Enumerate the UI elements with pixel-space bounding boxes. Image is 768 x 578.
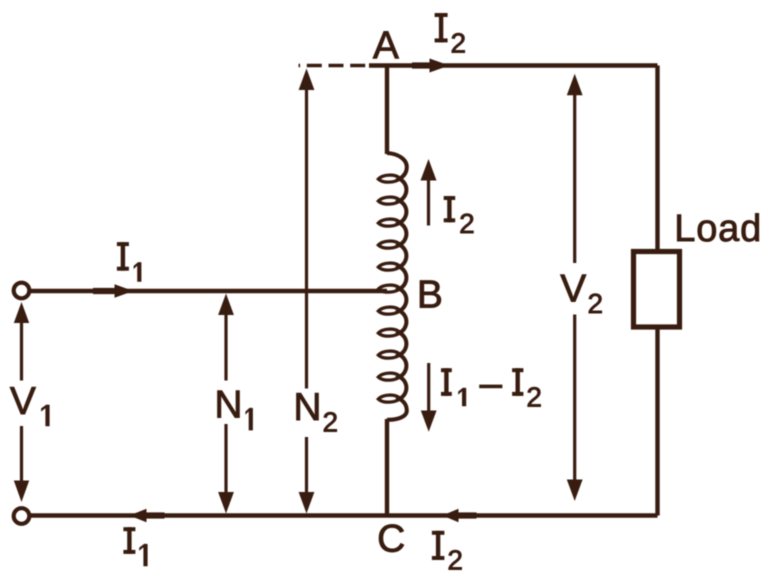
svg-text:V: V xyxy=(560,268,586,311)
V2 double arrow xyxy=(567,74,583,501)
svg-text:Load: Load xyxy=(674,208,762,250)
load resistor rectangle xyxy=(634,252,680,328)
inductor winding coil xyxy=(378,153,407,420)
I1-I2 arrow beside coil (pointing down) xyxy=(421,363,437,432)
svg-text:N: N xyxy=(214,384,242,427)
wire: top secondary wire A to right xyxy=(369,63,658,67)
wire: load bottom to bottom wire xyxy=(655,327,659,516)
wire: bottom return wire xyxy=(22,513,658,517)
svg-text:B: B xyxy=(417,274,443,317)
svg-text:2: 2 xyxy=(526,382,542,413)
wire: dashed extension left of A xyxy=(299,64,370,68)
wire: left input wire to tap B xyxy=(22,289,388,293)
I2 current arrow on bottom wire (pointing left) xyxy=(442,509,458,523)
label I1 bottom xyxy=(123,527,135,554)
wire: right vertical from top wire to load xyxy=(655,66,659,252)
label I2 bottom xyxy=(432,531,445,560)
label I1 top xyxy=(117,242,129,271)
wire: node A down to coil top xyxy=(385,64,389,155)
wire: coil bottom down to node C xyxy=(385,419,389,516)
I2 arrow beside coil (pointing up) xyxy=(421,159,437,226)
svg-text:2: 2 xyxy=(451,27,467,58)
I2 current arrow on top wire xyxy=(430,59,450,73)
svg-text:2: 2 xyxy=(447,545,463,576)
input terminal top xyxy=(14,283,30,299)
svg-text:2: 2 xyxy=(323,407,339,438)
N2 double arrow xyxy=(299,69,315,514)
svg-text:A: A xyxy=(373,25,399,68)
svg-text:C: C xyxy=(377,518,405,561)
label I1 - I2 xyxy=(441,368,452,396)
input terminal bottom xyxy=(14,508,30,524)
svg-text:2: 2 xyxy=(588,288,604,319)
V1 double arrow xyxy=(14,302,29,502)
svg-text:2: 2 xyxy=(459,208,475,239)
I1 current arrow on bottom wire (pointing left) xyxy=(129,509,146,523)
svg-text:V: V xyxy=(10,380,36,423)
svg-text:N: N xyxy=(293,386,321,429)
label I2 coil xyxy=(444,196,456,222)
coil loop turns xyxy=(378,175,400,402)
label I2 top xyxy=(435,13,448,42)
I1 current arrow on top-left wire xyxy=(115,284,134,298)
N1 double arrow xyxy=(218,294,234,514)
